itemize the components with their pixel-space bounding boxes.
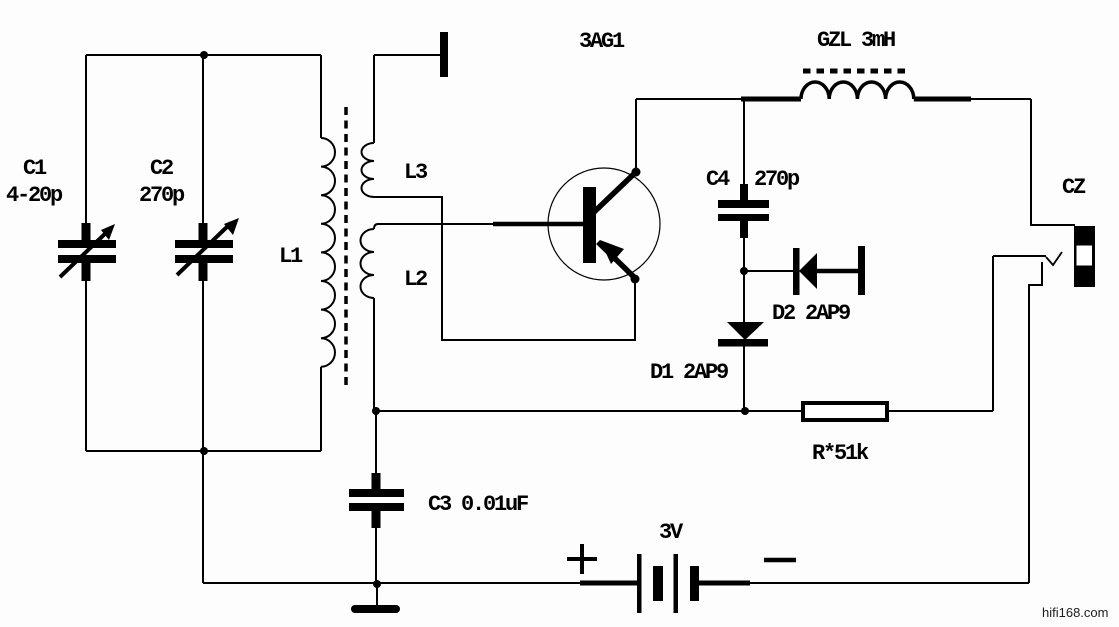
wire base lead <box>378 223 583 225</box>
svg-text:R*51k: R*51k <box>812 441 869 466</box>
svg-text:CZ: CZ <box>1062 175 1086 200</box>
wire C2 down to bottom rail <box>202 281 204 583</box>
svg-text:3AG1: 3AG1 <box>579 29 625 54</box>
svg-text:270p: 270p <box>754 167 800 192</box>
svg-text:C2: C2 <box>150 156 173 181</box>
svg-text:hifi168.com: hifi168.com <box>1042 605 1108 620</box>
inductor L2 <box>361 224 379 411</box>
svg-text:D1 2AP9: D1 2AP9 <box>650 360 728 385</box>
node junction bottom rail C2 <box>200 447 208 455</box>
svg-text:C4: C4 <box>706 167 730 192</box>
svg-text:4-20p: 4-20p <box>6 183 63 208</box>
node junction C4 D1 D2 <box>740 267 748 275</box>
capacitor C4 <box>718 99 769 271</box>
capacitor C2 <box>175 55 239 281</box>
wire jack tip contact to bottom rail <box>1029 262 1042 583</box>
diode D1 <box>718 274 768 411</box>
diode D2 <box>747 246 865 295</box>
wire top rail <box>86 54 321 56</box>
wire bottom rail left <box>203 582 580 584</box>
wire collector rail <box>636 98 741 100</box>
inductor L1 <box>321 55 335 451</box>
wire right side down to jack <box>1031 99 1075 225</box>
svg-text:L1: L1 <box>279 244 303 269</box>
wire antenna feed <box>374 54 440 56</box>
capacitor C1 <box>58 55 116 451</box>
svg-text:C3 0.01uF: C3 0.01uF <box>428 492 528 517</box>
node junction top rail C2 <box>200 51 208 59</box>
wire jack switch contact <box>993 252 1062 411</box>
svg-text:270p: 270p <box>139 183 185 208</box>
node junction C3 bottom rail <box>373 580 381 588</box>
svg-text:GZL 3mH: GZL 3mH <box>817 28 895 53</box>
antenna bar <box>440 32 448 77</box>
battery plus sign <box>567 544 597 574</box>
svg-text:D2 2AP9: D2 2AP9 <box>772 301 850 326</box>
battery 3V <box>637 554 699 613</box>
node junction D1 rail <box>741 407 749 415</box>
inductor L3 <box>362 55 375 197</box>
wire bottom-left rail <box>86 450 321 452</box>
capacitor C3 <box>349 411 404 584</box>
resistor R*51k <box>803 403 993 420</box>
wire collector up <box>635 99 637 171</box>
svg-text:L2: L2 <box>404 267 427 292</box>
wire bottom rail right <box>699 581 750 586</box>
battery minus sign <box>764 558 796 563</box>
ground <box>351 584 400 613</box>
wire L3 to emitter loop <box>374 197 635 340</box>
jack CZ <box>1074 226 1095 287</box>
inductor GZL 3mH <box>801 71 1031 99</box>
svg-text:C1: C1 <box>23 156 47 181</box>
wire feedback rail <box>376 410 801 412</box>
node junction L2 C3 <box>372 407 380 415</box>
svg-text:3V: 3V <box>659 520 684 545</box>
transistor Q 3AG1 <box>548 168 660 284</box>
transformer core dashed <box>344 107 348 390</box>
svg-text:L3: L3 <box>404 160 428 185</box>
